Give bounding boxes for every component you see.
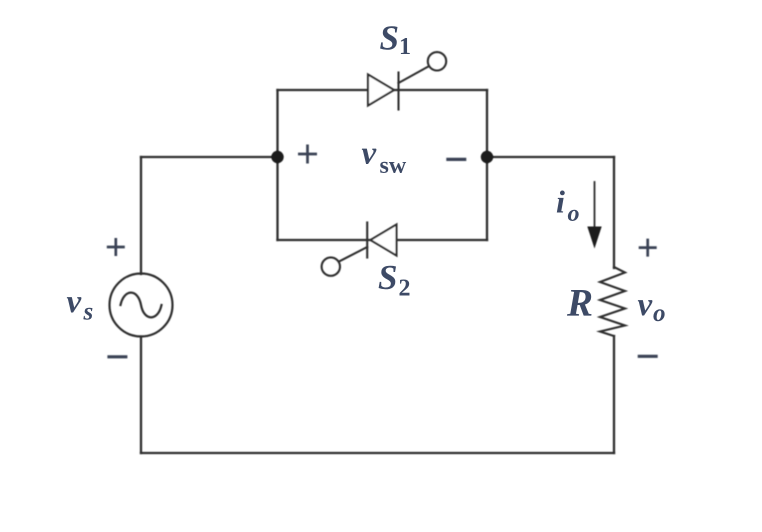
label plus left of vsw [298,145,317,164]
wire bottom horizontal [141,452,614,454]
wire right vertical lower [613,336,615,453]
wire middle left segment [141,156,278,158]
thyristor S1 triangle [368,75,394,106]
label minus right of vsw [446,158,466,161]
wire left vertical lower [140,337,142,454]
thyristor S2 gate circle [322,257,340,275]
current io arrow shaft [594,182,596,230]
label minus below source [107,355,127,358]
label plus above source [107,238,125,256]
svg-text:S: S [378,258,397,297]
node left junction dot [271,151,283,163]
svg-text:v: v [362,136,377,172]
svg-text:s: s [83,299,94,326]
wire left vertical upper [140,157,142,274]
wire bottom branch [278,239,488,241]
source sine wave [121,293,162,318]
thyristor S2 cathode bar [366,223,368,258]
thyristor S2 gate lead [339,247,367,262]
svg-text:i: i [556,184,565,220]
svg-text:v: v [638,287,653,323]
thyristor S1 gate circle [428,52,446,70]
svg-text:o: o [653,300,666,327]
svg-text:sw: sw [380,153,407,179]
thyristor S1 gate lead [399,67,429,84]
thyristor S1 cathode bar [397,73,399,110]
label minus below vo [638,355,658,358]
wire box right vertical [486,90,488,240]
svg-text:o: o [568,201,580,227]
wire right vertical upper [613,157,615,268]
svg-text:2: 2 [399,276,411,302]
wire top branch [278,89,488,91]
current io arrowhead [587,227,601,249]
node right junction dot [481,151,493,163]
label plus above vo [639,239,657,257]
resistor R zigzag [600,267,625,336]
thyristor S2 triangle [371,225,397,256]
svg-text:1: 1 [399,34,411,60]
svg-text:S: S [380,19,399,58]
wire box left vertical [276,90,278,240]
svg-text:v: v [67,284,82,320]
wire middle right segment [487,156,614,158]
source vs circle [110,274,173,337]
svg-text:R: R [566,282,593,325]
